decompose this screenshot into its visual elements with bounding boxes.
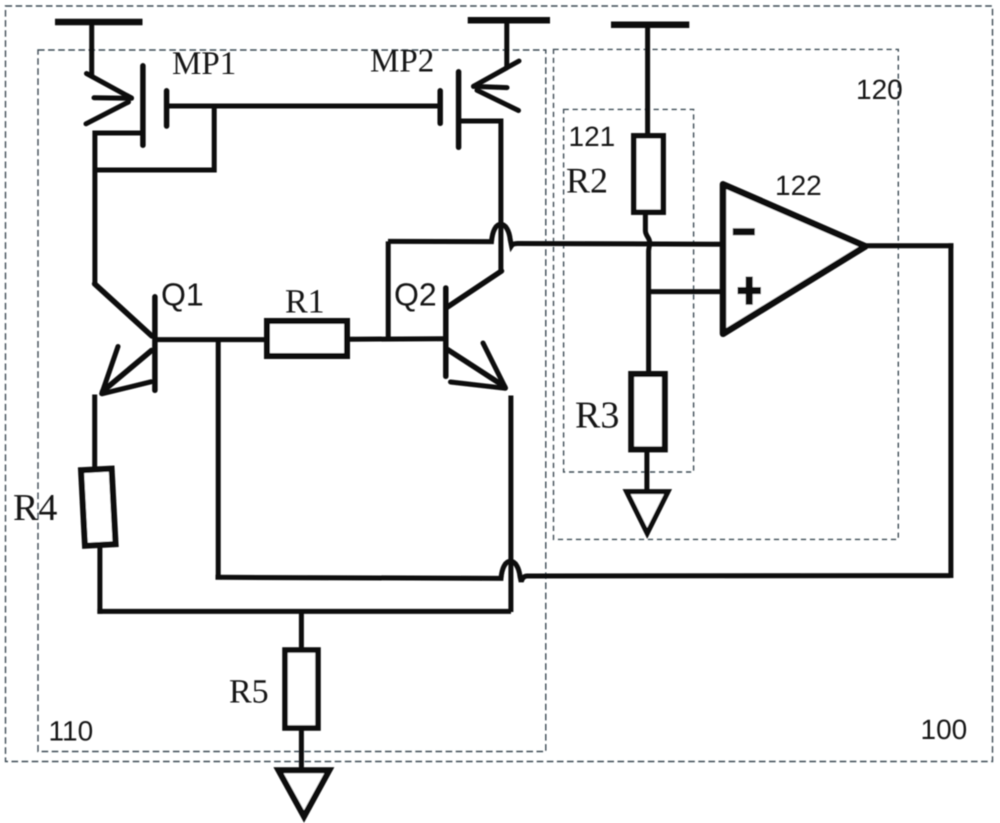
transistor Q1 [95,284,155,394]
wire feedback vertical [948,243,953,578]
wire R1 to Q2 base [349,336,444,341]
resistor R3 [631,374,665,449]
svg-text:100: 100 [921,714,968,745]
Q1 emitter diagonal [103,351,152,392]
MP2 gate bar [437,91,443,124]
svg-text:R3: R3 [575,395,619,437]
wire node: horizontal from Q2 collector branch to op-amp minus, hop at MP2 drain [388,224,723,246]
supply rail over MP1 [55,22,143,77]
ground under R5 [279,770,330,816]
svg-text:R1: R1 [285,284,325,321]
wire MP1 diode connection loop [93,106,215,170]
dashed block 110 [38,50,546,752]
svg-text:MP1: MP1 [172,46,236,82]
svg-text:Q2: Q2 [394,277,437,313]
wire R5 top lead [299,611,304,649]
MP2 drain stub [461,119,500,124]
wire Q2 emitter down [508,396,513,613]
MP1 channel bar [140,66,146,145]
wire R5 bottom lead [299,730,304,772]
Q1 collector diagonal [95,284,152,336]
svg-text:R5: R5 [229,674,269,711]
wire Q1 base to R1 [157,337,265,342]
resistor R1 [267,321,347,356]
wire R3 bottom lead [644,450,649,505]
resistor R5 [285,650,318,728]
svg-text:R2: R2 [566,161,608,201]
Q2 emitter diagonal [448,350,505,387]
svg-text:MP2: MP2 [370,44,434,80]
wire bottom rail [97,609,511,614]
svg-text:Q1: Q1 [161,277,204,313]
op-amp U122 [723,184,866,333]
wire junction down from base node [216,340,221,579]
transistor MP2 [440,61,519,147]
dashed block 120 [554,49,899,539]
supply rail over MP2 [468,20,550,67]
resistor R2 [634,136,663,212]
svg-text:110: 110 [49,716,94,747]
svg-text:121: 121 [569,121,616,152]
wire R2 bottom jog crossing [645,214,649,374]
transistor Q2 [446,271,506,388]
wire MP2 drain down [498,119,503,272]
wire MP1 drain down to Q1 [92,131,97,285]
wire R4 to bottom rail [97,547,102,614]
wire branch down to Q2 base node [386,241,391,338]
supply rail over R2 [611,25,689,136]
ground under R3 [627,492,668,534]
MP2 channel bar [456,72,462,148]
resistor R4 [81,469,116,546]
svg-text:120: 120 [856,74,903,105]
Q1 base bar [152,297,158,391]
op-amp plus sign [738,287,761,294]
wire Q1 emitter to R4 [92,395,97,468]
transistor MP1 [86,66,167,145]
svg-text:R4: R4 [13,487,57,529]
Q2 emitter arrow [483,343,506,388]
Q1 emitter arrow [102,347,118,394]
wire plus input branch [649,289,722,294]
MP1 source arrow [87,74,132,99]
wire MP1 gate to MP2 gate [169,104,438,109]
svg-text:122: 122 [775,170,822,201]
op-amp minus sign [733,228,755,235]
wire feedback rail with hop over Q2 emitter [216,561,951,582]
MP2 source arrow [474,61,520,86]
wire op-amp output [864,243,953,248]
Q2 base bar [443,288,449,376]
MP1 drain stub [95,131,141,136]
dashed block 121 [564,109,694,472]
MP1 gate bar [164,91,170,126]
Q2 collector diagonal [448,271,502,307]
